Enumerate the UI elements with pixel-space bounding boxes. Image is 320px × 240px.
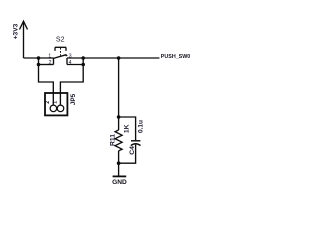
lever arrowhead <box>65 54 68 57</box>
svg-text:GND: GND <box>112 179 127 186</box>
switch lever <box>53 55 66 59</box>
wire left branch down to JP5 pin2 <box>39 58 54 105</box>
wire right branch down to JP5 pin1 <box>60 58 83 105</box>
actuator dashed link <box>60 48 62 56</box>
wire down to RC network <box>118 58 120 130</box>
wire pin3 to PUSH_SW0 net end <box>67 57 159 59</box>
junction node RC top <box>117 115 121 119</box>
JP5 socket circle pin1 <box>57 105 64 112</box>
resistor R11 zigzag <box>115 130 122 151</box>
switch S2 (pushbutton) <box>53 47 67 64</box>
junction node bottom-right <box>81 63 85 67</box>
capacitor C4 curved plate <box>131 144 141 146</box>
junction node top-left <box>37 56 41 60</box>
svg-text:0.1u: 0.1u <box>137 120 144 133</box>
contact tick pins 1-2 <box>53 58 55 65</box>
svg-text:C4: C4 <box>129 146 136 155</box>
contact tick pins 3-4 <box>66 58 68 65</box>
svg-text:2: 2 <box>49 60 52 66</box>
actuator bar <box>55 46 66 48</box>
ground bar <box>113 175 127 177</box>
capacitor C4 top plate <box>131 140 140 142</box>
wire pin2 row (bottom row left) <box>39 64 54 66</box>
svg-text:4: 4 <box>69 60 72 66</box>
wire pin4 row (bottom row right) <box>67 64 83 66</box>
svg-text:S2: S2 <box>56 37 65 44</box>
capacitor C4 branch bottom wire <box>119 145 136 164</box>
svg-text:JP5: JP5 <box>70 93 77 105</box>
connector JP5 box <box>45 93 67 115</box>
junction node bottom-left <box>37 63 41 67</box>
junction node RC bottom <box>117 161 121 165</box>
junction node at PUSH_SW0 wire <box>117 56 121 60</box>
JP5 socket circle pin2 <box>50 105 57 112</box>
svg-text:1K: 1K <box>123 124 130 133</box>
svg-text:2: 2 <box>45 101 51 104</box>
wire resistor to bottom node <box>118 151 120 176</box>
svg-text:3: 3 <box>69 53 72 59</box>
capacitor C4 branch top wire <box>119 117 136 141</box>
svg-text:1: 1 <box>52 101 58 104</box>
svg-text:+3V3: +3V3 <box>12 23 19 39</box>
svg-text:R11: R11 <box>110 134 117 146</box>
svg-text:1: 1 <box>48 53 51 59</box>
power +3V3 arrow symbol <box>20 21 28 58</box>
svg-text:PUSH_SW0: PUSH_SW0 <box>161 54 191 60</box>
junction node top-right <box>81 56 85 60</box>
wire +3V3 to pin1 (top row) <box>24 57 54 59</box>
